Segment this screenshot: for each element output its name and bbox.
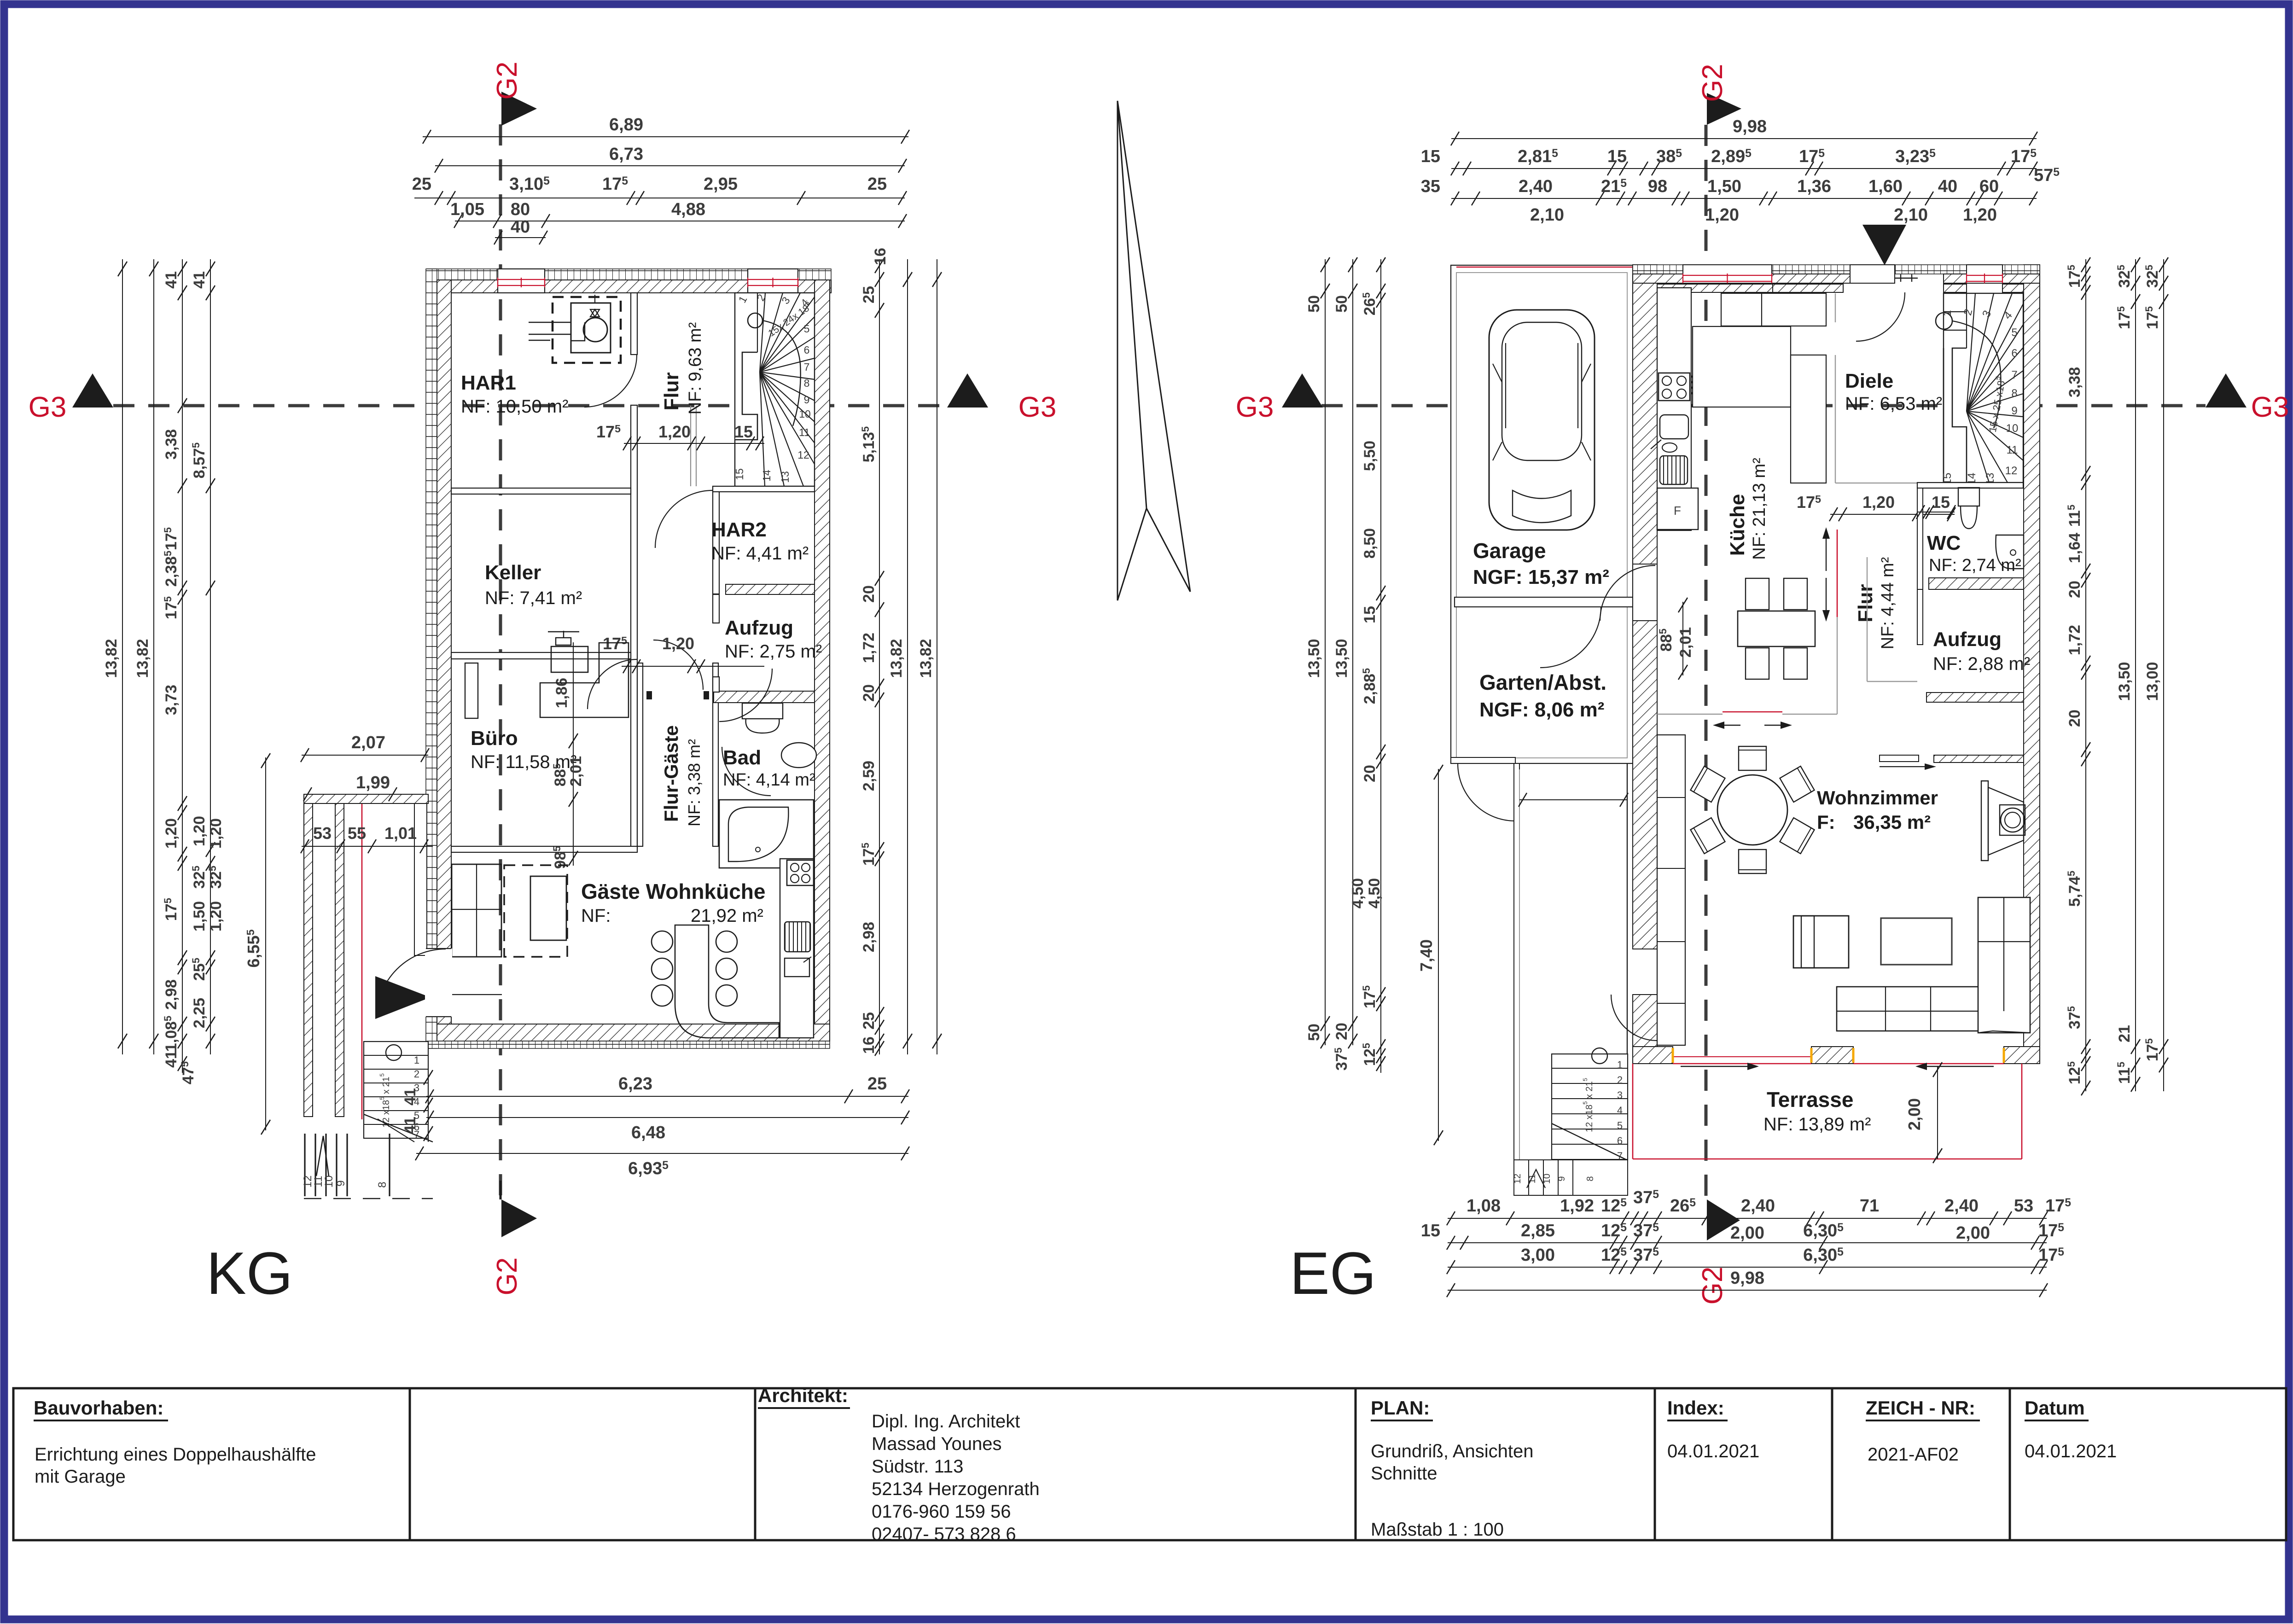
svg-text:Südstr. 113: Südstr. 113 (872, 1456, 963, 1477)
svg-text:25: 25 (867, 1074, 887, 1094)
svg-text:Grundriß, Ansichten: Grundriß, Ansichten (1371, 1441, 1534, 1461)
EG top dim row 3 (1451, 198, 2037, 199)
EG window 1 top wall (1683, 265, 1772, 283)
svg-text:2,25: 2,25 (191, 998, 208, 1028)
KG stair walk line with circle (748, 313, 762, 328)
svg-text:1,20: 1,20 (1705, 205, 1739, 225)
svg-text:2: 2 (1617, 1074, 1623, 1086)
svg-text:5: 5 (804, 323, 810, 335)
svg-text:15: 15 (1421, 147, 1440, 166)
svg-text:1,92: 1,92 (1560, 1196, 1594, 1216)
svg-text:40: 40 (511, 217, 530, 237)
svg-text:25: 25 (860, 286, 878, 303)
svg-text:1,36: 1,36 (1797, 177, 1831, 196)
svg-text:G2: G2 (491, 62, 523, 100)
EG Aufzug walls (1917, 589, 1923, 645)
svg-text:41: 41 (163, 271, 180, 289)
svg-text:2,10: 2,10 (1530, 205, 1564, 225)
svg-text:4: 4 (1617, 1105, 1623, 1116)
svg-text:G3: G3 (2251, 391, 2289, 423)
svg-text:12: 12 (1513, 1174, 1523, 1184)
svg-text:Bad: Bad (723, 746, 761, 769)
svg-text:HAR2: HAR2 (711, 518, 767, 541)
svg-text:11: 11 (2007, 444, 2018, 456)
svg-text:9,98: 9,98 (1733, 117, 1767, 136)
svg-text:Büro: Büro (471, 727, 518, 750)
svg-text:2,01: 2,01 (567, 756, 585, 786)
svg-text:G2: G2 (1697, 64, 1728, 102)
KG door Aufzug/Flur-Gaeste (719, 669, 772, 722)
svg-text:7: 7 (2011, 369, 2017, 381)
svg-text:7,40: 7,40 (1417, 939, 1436, 972)
EG Flur walls lower (1867, 557, 1868, 681)
KG Bad toilet (742, 703, 783, 719)
EG hob (1659, 373, 1690, 401)
KG stair box bottom wall (713, 486, 815, 492)
svg-text:Flur-Gäste: Flur-Gäste (660, 725, 682, 822)
KG window 1 in top wall (498, 269, 545, 293)
svg-text:1,20: 1,20 (1963, 205, 1997, 225)
KG interior wall vertical (HAR1/Flur) (631, 293, 637, 355)
svg-text:15: 15 (733, 468, 745, 480)
svg-text:4,50: 4,50 (1349, 878, 1367, 908)
svg-text:41: 41 (191, 271, 208, 289)
svg-text:NF: 10,50 m²: NF: 10,50 m² (461, 396, 568, 417)
KG exterior stair steps (364, 1042, 428, 1138)
EG dim 88_5 2,01 rotated (1682, 602, 1683, 675)
svg-text:Flur: Flur (1854, 584, 1877, 622)
EG garage-house door gap (1633, 564, 1657, 621)
EG WC dim 15 (1917, 512, 1955, 512)
svg-text:41: 41 (402, 1088, 419, 1106)
svg-text:Schnitte: Schnitte (1371, 1463, 1437, 1484)
svg-text:10: 10 (2006, 422, 2019, 435)
KG sink drainer (785, 922, 810, 952)
KG interior wall Buero bottom horizontal (451, 846, 637, 852)
svg-text:6: 6 (1617, 1135, 1623, 1147)
KG outer wall left (426, 269, 437, 1048)
svg-text:KG: KG (206, 1240, 293, 1307)
KG interior dim 17_5 1,20 (mid) (622, 666, 764, 667)
KG Bad washbasin (oval) (781, 743, 816, 768)
svg-text:G3: G3 (29, 391, 67, 423)
svg-text:1,72: 1,72 (2066, 625, 2083, 655)
svg-text:04.01.2021: 04.01.2021 (1667, 1441, 1759, 1461)
svg-text:2,40: 2,40 (1944, 1196, 1979, 1216)
svg-text:NF: 9,63 m²: NF: 9,63 m² (686, 322, 705, 415)
EG orange ticks at openings (1672, 1048, 1674, 1063)
svg-text:15: 15 (1421, 1221, 1440, 1240)
KG interior dim 1,86 2,01 88_5 98_5 (rotated) (573, 642, 574, 866)
svg-text:2,40: 2,40 (1741, 1196, 1775, 1216)
EG kitchen top cabinets (1721, 293, 1826, 326)
EG garage/garten divider wall (1455, 597, 1633, 607)
KG door HAR1 (584, 355, 637, 407)
EG Diele boundary walls (1835, 293, 1836, 322)
KG Buero chair (551, 646, 588, 672)
KG Wohnkueche L-shaped counter (675, 925, 779, 1038)
svg-text:Garage: Garage (1473, 539, 1546, 563)
svg-text:Flur: Flur (660, 372, 683, 410)
svg-text:20: 20 (860, 684, 878, 702)
svg-text:20: 20 (1333, 1023, 1350, 1040)
svg-text:50: 50 (1305, 1024, 1323, 1041)
svg-text:25: 25 (412, 175, 431, 194)
svg-text:10: 10 (323, 1176, 335, 1188)
KG bottom dim row 6,23 | 25 (426, 1096, 908, 1097)
svg-text:3,38: 3,38 (2066, 367, 2083, 397)
KG left dim chain 3 (182, 259, 183, 1073)
svg-text:1,20: 1,20 (658, 422, 691, 441)
KG sink (785, 958, 809, 977)
svg-text:11: 11 (799, 426, 810, 438)
svg-text:5: 5 (2011, 326, 2017, 339)
svg-text:2,00: 2,00 (1956, 1223, 1990, 1243)
svg-text:NF: 21,13 m²: NF: 21,13 m² (1750, 458, 1769, 560)
svg-text:HAR1: HAR1 (461, 372, 516, 394)
EG fireplace (1981, 781, 1988, 861)
svg-text:2,98: 2,98 (163, 979, 180, 1010)
KG Aufzug door wall pieces (713, 594, 719, 623)
EG kitchen counter left wall (1657, 288, 1691, 530)
svg-text:Gäste Wohnküche: Gäste Wohnküche (581, 879, 765, 903)
svg-text:1,60: 1,60 (1868, 177, 1903, 196)
north arrow (1117, 101, 1190, 600)
EG wall below stairs (1917, 483, 2023, 488)
svg-text:2,98: 2,98 (860, 922, 878, 952)
EG top dim row 2 (1451, 168, 2037, 169)
EG WC washbasin (1996, 535, 2024, 569)
svg-text:WC: WC (1927, 532, 1961, 554)
svg-text:6: 6 (2011, 347, 2017, 360)
svg-text:6,73: 6,73 (609, 145, 643, 164)
section line G3 (left, through KG) (113, 404, 947, 407)
EG stair winder top right (1944, 293, 2023, 483)
svg-text:PLAN:: PLAN: (1371, 1397, 1430, 1419)
svg-text:16: 16 (860, 1036, 878, 1054)
svg-text:2,10: 2,10 (1894, 205, 1928, 225)
svg-text:6: 6 (804, 344, 810, 356)
svg-text:2,40: 2,40 (1519, 177, 1553, 196)
KG Buero desk L-shape (540, 643, 629, 717)
G2 marker top EG (1707, 93, 1741, 125)
svg-text:20: 20 (2066, 710, 2083, 727)
svg-text:EG: EG (1290, 1240, 1376, 1307)
svg-text:13: 13 (779, 471, 791, 483)
EG red pocket door Kueche/Flur (1837, 530, 1838, 617)
svg-text:60: 60 (1979, 177, 1999, 196)
svg-text:NF: 2,74 m²: NF: 2,74 m² (1929, 556, 2021, 575)
EG left dim chain 1 (1325, 259, 1326, 1045)
svg-text:2,07: 2,07 (351, 733, 385, 752)
svg-text:9: 9 (1557, 1176, 1567, 1181)
svg-text:Wohnzimmer: Wohnzimmer (1817, 787, 1938, 809)
svg-text:4,50: 4,50 (1366, 878, 1383, 908)
KG bottom dim row 6,93_5 (416, 1153, 908, 1154)
svg-text:1,08: 1,08 (1467, 1196, 1501, 1216)
svg-text:52134 Herzogenrath: 52134 Herzogenrath (872, 1479, 1040, 1499)
svg-text:02407- 573 828 6: 02407- 573 828 6 (872, 1524, 1016, 1544)
EG right dim chain 3 (2163, 259, 2164, 1091)
KG window 2 in top wall (748, 269, 798, 293)
KG Bad shower (719, 800, 814, 868)
svg-text:F: F (1674, 504, 1681, 518)
svg-text:7: 7 (804, 361, 810, 373)
EG garage top red line (1456, 267, 1633, 268)
KG top dim row 6,89 (423, 136, 908, 137)
svg-text:50: 50 (1305, 295, 1323, 313)
svg-text:NF: 2,88 m²: NF: 2,88 m² (1933, 654, 2030, 674)
KG top dim row 25 | 3,10_5 | 17_5 | 2,95 | 25 (414, 198, 905, 198)
EG exterior stair strip (1514, 763, 1519, 1195)
EG WC walls (1917, 488, 1923, 589)
svg-text:41: 41 (163, 1050, 180, 1068)
svg-text:20: 20 (1361, 765, 1379, 782)
svg-text:Errichtung eines Doppelhaushäl: Errichtung eines Doppelhaushälfte (35, 1444, 316, 1465)
svg-text:G3: G3 (1018, 391, 1057, 423)
KG left dim chain outer 13,82 (122, 259, 123, 1054)
svg-text:1,20: 1,20 (1862, 493, 1895, 512)
title block vertical dividers (409, 1388, 411, 1540)
svg-text:13,82: 13,82 (888, 639, 905, 678)
EG terrace door arrows (1681, 1066, 1747, 1067)
EG WC toilet (1958, 488, 1979, 506)
svg-text:1,20: 1,20 (191, 816, 208, 846)
svg-text:12: 12 (797, 449, 809, 461)
svg-text:10: 10 (1542, 1174, 1552, 1184)
G2 marker top KG (501, 92, 537, 126)
KG lightwell / exterior stair shaft left (304, 803, 313, 1117)
svg-text:5: 5 (1617, 1120, 1623, 1131)
svg-text:16: 16 (872, 248, 889, 265)
EG dining table and chairs (1738, 611, 1815, 646)
KG right dim chain 2 (13,82) (907, 259, 908, 1054)
svg-text:9,98: 9,98 (1730, 1269, 1764, 1288)
svg-text:1,99: 1,99 (356, 773, 390, 792)
svg-text:53: 53 (313, 824, 332, 843)
svg-text:10: 10 (799, 408, 811, 420)
EG small table 1 (1793, 916, 1849, 968)
section line G2 KG (vertical dashed) (499, 124, 502, 1197)
svg-text:Diele: Diele (1845, 370, 1893, 392)
svg-text:8: 8 (804, 377, 810, 389)
KG interior wall HAR1/Keller horizontal (451, 488, 631, 494)
svg-text:1,50: 1,50 (191, 901, 208, 931)
EG bottom dim row 9,98 (1448, 1290, 2047, 1291)
svg-text:Architekt:: Architekt: (758, 1385, 848, 1406)
EG small table 2 (1881, 918, 1952, 965)
svg-text:21,92 m²: 21,92 m² (691, 906, 763, 926)
KG corridor wall Flur-Gaeste left (637, 663, 643, 846)
svg-text:25: 25 (867, 175, 887, 194)
EG wall Flur lower boundary (1837, 617, 1838, 714)
svg-text:Terrasse: Terrasse (1767, 1088, 1853, 1112)
KG interior dim 17_5 1,20 15 (upper) (624, 443, 764, 444)
svg-text:04.01.2021: 04.01.2021 (2025, 1441, 2117, 1461)
svg-text:NF: 2,75 m²: NF: 2,75 m² (725, 641, 822, 662)
svg-text:Aufzug: Aufzug (1933, 628, 2002, 651)
svg-text:6,48: 6,48 (631, 1123, 665, 1142)
KG top dim row 6,73 (435, 165, 905, 166)
EG cabinet column left wall (1657, 735, 1685, 1045)
EG bottom dim row 2 (1448, 1242, 2047, 1243)
EG drainer (1660, 456, 1688, 484)
G2 marker bottom KG (500, 1181, 502, 1199)
svg-text:1,20: 1,20 (207, 818, 225, 849)
G2 marker bottom EG (1707, 1199, 1740, 1240)
svg-text:G3: G3 (1236, 391, 1274, 423)
svg-text:2021-AF02: 2021-AF02 (1868, 1444, 1959, 1465)
KG stair winder top right (735, 293, 815, 486)
KG entrance arrow (375, 976, 431, 1019)
svg-text:20: 20 (860, 585, 878, 603)
KG outer wall right (815, 280, 830, 1028)
KG wall HAR2 bottom hatched band (726, 584, 815, 594)
EG fridge F (1657, 488, 1698, 530)
EG house top wall (1633, 265, 2040, 274)
EG entrance door leaf marks (1895, 278, 1918, 279)
svg-text:15: 15 (1361, 606, 1379, 623)
svg-text:9: 9 (804, 394, 810, 406)
svg-text:9: 9 (335, 1180, 347, 1186)
EG hatched band below WC (1929, 578, 2024, 589)
svg-text:6,23: 6,23 (618, 1074, 652, 1094)
svg-text:NF: 6,53 m²: NF: 6,53 m² (1845, 394, 1942, 414)
EG red sliding door Kueche/Wohnzimmer (1657, 714, 1723, 715)
KG wall HAR2 left vertical (713, 488, 719, 594)
G3 marker right of KG (947, 373, 988, 407)
EG entrance marker triangle (1862, 225, 1906, 265)
svg-text:13,50: 13,50 (2116, 662, 2133, 701)
svg-text:80: 80 (511, 200, 530, 219)
svg-text:1,50: 1,50 (1707, 177, 1741, 196)
KG Wohnkueche sofa (452, 864, 501, 957)
svg-text:Datum: Datum (2025, 1397, 2085, 1419)
EG exterior stair steps (1552, 1054, 1628, 1160)
EG sink unit (1660, 415, 1688, 439)
EG Wohnzimmer round table (1717, 775, 1787, 845)
KG hob (787, 860, 814, 885)
EG house right wall hatched (2024, 265, 2040, 1064)
svg-text:3,73: 3,73 (163, 685, 180, 715)
EG terrace red outline (1633, 1158, 2022, 1160)
EG right dim chain 2 (2135, 259, 2136, 1091)
svg-text:NF: 3,38 m²: NF: 3,38 m² (685, 739, 704, 827)
svg-text:15: 15 (734, 422, 753, 441)
KG heating unit HAR1 (dashed box) (553, 297, 621, 363)
EG bottom dim row 1 (1448, 1218, 2047, 1219)
svg-text:Küche: Küche (1726, 494, 1749, 556)
svg-text:50: 50 (1333, 295, 1350, 313)
svg-text:NF: 4,41 m²: NF: 4,41 m² (711, 543, 809, 564)
EG bottom dim row 3 (1448, 1267, 2047, 1268)
svg-text:13,50: 13,50 (1333, 639, 1350, 678)
EG dim 2,00 garage strip (1519, 799, 1627, 800)
EG dim 17_5 1,20 15 interior (1830, 514, 1955, 515)
svg-text:98: 98 (1648, 177, 1667, 196)
svg-text:ZEICH - NR:: ZEICH - NR: (1866, 1397, 1975, 1419)
svg-text:2,00: 2,00 (1905, 1098, 1924, 1130)
EG terrace dim 2,00 (1937, 1066, 1938, 1159)
KG stair core (735, 352, 757, 440)
EG kitchen peninsula (1791, 355, 1826, 483)
KG exterior stair lower flight (304, 1134, 305, 1196)
svg-text:36,35 m²: 36,35 m² (1853, 811, 1931, 833)
EG Flur bottom wall pieces (1880, 755, 1919, 762)
EG house left wall door gap (1611, 995, 1657, 1041)
svg-text:13,82: 13,82 (103, 639, 120, 678)
svg-text:13,00: 13,00 (2144, 662, 2161, 701)
KG wall Aufzug bottom hatched band (714, 691, 815, 703)
svg-text:1,05: 1,05 (450, 200, 484, 219)
EG house left wall hatched (1633, 265, 1657, 564)
svg-text:55: 55 (348, 824, 366, 843)
svg-text:8: 8 (376, 1182, 389, 1187)
svg-text:8: 8 (1585, 1176, 1595, 1181)
svg-text:1,20: 1,20 (163, 818, 180, 849)
KG chain 41/41 at exterior stair (428, 1059, 429, 1142)
svg-text:1,20: 1,20 (207, 901, 225, 931)
svg-text:13,82: 13,82 (134, 639, 151, 678)
svg-text:71: 71 (1860, 1196, 1879, 1216)
KG right dim chain 3 (13,82) (937, 259, 937, 1054)
EG kitchen tall block (1693, 326, 1791, 407)
svg-text:41: 41 (402, 1117, 419, 1134)
EG left dim chain 2 (1352, 259, 1353, 1045)
KG left dim chain 4 (210, 259, 211, 1054)
svg-text:NF: 4,44 m²: NF: 4,44 m² (1878, 557, 1897, 650)
svg-text:2,59: 2,59 (860, 761, 878, 791)
EG bottom wall red window lines (1673, 1063, 1811, 1064)
EG stair core (1944, 348, 1967, 483)
G3 marker left of KG (72, 373, 113, 407)
svg-text:2: 2 (414, 1068, 419, 1080)
svg-text:1,64: 1,64 (2066, 533, 2083, 563)
svg-text:Index:: Index: (1667, 1397, 1724, 1419)
EG dim 7,40 vertical (1438, 769, 1439, 1141)
svg-text:1,01: 1,01 (384, 824, 417, 843)
section line G3 (right, through EG) (1321, 404, 2206, 407)
svg-text:15: 15 (1932, 493, 1950, 512)
EG garten bottom wall (1451, 757, 1515, 763)
KG bottom dim row 6,48 (426, 1117, 908, 1118)
G3 marker right of EG (2206, 373, 2246, 407)
svg-text:Maßstab 1 : 100: Maßstab 1 : 100 (1371, 1519, 1504, 1540)
svg-text:2,85: 2,85 (1521, 1221, 1555, 1240)
svg-text:Aufzug: Aufzug (725, 617, 793, 639)
svg-text:Massad Younes: Massad Younes (872, 1434, 1001, 1454)
KG corridor wall Flur-Gaeste right (713, 663, 718, 846)
title block outer box (13, 1388, 2286, 1540)
svg-text:15: 15 (1607, 147, 1627, 166)
KG door HAR2 (655, 490, 713, 548)
KG corridor top door arc (653, 640, 703, 690)
svg-text:Keller: Keller (485, 561, 541, 584)
EG top dim row 9,98 (1451, 138, 2037, 139)
svg-text:1: 1 (414, 1054, 419, 1066)
svg-text:35: 35 (1421, 177, 1440, 196)
svg-text:8: 8 (2011, 387, 2017, 400)
svg-text:21: 21 (2116, 1025, 2133, 1042)
EG stair walk line (1936, 313, 1952, 329)
KG top dim row 1,05 | 80 | 4,88 (455, 221, 905, 221)
svg-text:NGF: 15,37 m²: NGF: 15,37 m² (1473, 566, 1609, 588)
svg-text:Garten/Abst.: Garten/Abst. (1479, 670, 1606, 694)
svg-text:G2: G2 (1697, 1267, 1728, 1305)
svg-text:NF:: NF: (581, 906, 611, 926)
section line G2 EG (vertical dashed) (1705, 125, 1708, 1199)
KG Wohnkueche stools (652, 931, 673, 952)
